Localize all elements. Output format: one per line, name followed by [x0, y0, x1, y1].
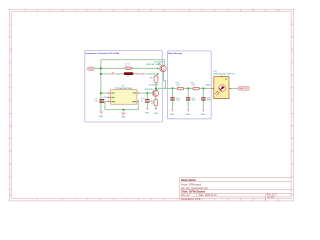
- D10 left pin: [211, 87, 213, 89]
- junction on rail at B: [100, 67, 102, 69]
- wire B end pin square: [157, 68, 158, 69]
- svg-text:BPW34S_SMD_GMP / PD: BPW34S_SMD_GMP / PD: [214, 73, 236, 75]
- wire: U5 out to Q2 base: [140, 92, 152, 94]
- frame row ticks left/right: [9, 37, 293, 189]
- value text overlay on rail C (left): [109, 73, 123, 75]
- svg-text:WHIT1088_C1k: WHIT1088_C1k: [145, 89, 157, 91]
- capacitor C8: [141, 98, 150, 103]
- wire: C11 to gnd: [187, 100, 189, 109]
- wire: rail C square to resistor: [155, 75, 157, 90]
- svg-text:D3: D3: [136, 74, 138, 76]
- svg-text:4.7u: 4.7u: [94, 101, 98, 103]
- resistor dark body on rail C: [124, 72, 134, 75]
- svg-text:100n: 100n: [176, 100, 180, 102]
- svg-text:KiCad E.D.A. 8.0.8: KiCad E.D.A. 8.0.8: [181, 198, 201, 201]
- transistor Q2: [152, 90, 158, 96]
- capacitor C10: [170, 97, 180, 101]
- svg-text:G: G: [10, 177, 12, 179]
- svg-text:Bias Filtering: Bias Filtering: [168, 52, 182, 55]
- svg-text:GND: GND: [145, 113, 150, 115]
- group box: Bias Filtering: [168, 51, 212, 119]
- svg-text:1k: 1k: [118, 74, 120, 76]
- junction under U5: [123, 109, 125, 111]
- capacitor C12: [201, 97, 211, 101]
- svg-text:Ralph Muehl: Ralph Muehl: [181, 179, 196, 182]
- hierarchical label arrow: [158, 63, 160, 65]
- junction at Q2 collector: [155, 87, 157, 89]
- wire: cap1 drop: [172, 88, 174, 97]
- frame column numbers: [24, 10, 281, 201]
- svg-text:+3V3: +3V3: [102, 97, 106, 99]
- svg-text:C5 1u: C5 1u: [125, 64, 130, 66]
- svg-text:Title: GFM Board: Title: GFM Board: [181, 190, 205, 194]
- capacitor C5 (oval): [125, 67, 132, 70]
- svg-text:+1.2k: +1.2k: [191, 85, 196, 87]
- svg-text:2: 2: [108, 100, 109, 102]
- ground arrow under U5: [121, 113, 126, 116]
- resistor R10: [177, 87, 183, 90]
- svg-text:100n: 100n: [207, 100, 211, 102]
- svg-text:GND: GND: [201, 114, 206, 116]
- svg-text:D4: D4: [141, 74, 143, 76]
- group box: Temperature Correction: [85, 50, 163, 122]
- svg-text:1%: 1%: [151, 103, 154, 105]
- ground under C11: [187, 110, 190, 112]
- global label PT1k: [87, 67, 94, 70]
- svg-text:GND: GND: [186, 114, 191, 116]
- wire: C12 to gnd: [202, 100, 204, 109]
- wire: cap3 drop: [202, 88, 204, 97]
- svg-text:+2mA: +2mA: [205, 84, 211, 87]
- wire: cap2 drop: [187, 88, 189, 97]
- photodiode D10 box: [214, 77, 229, 99]
- wire: U5 ground U-loop: [105, 102, 138, 110]
- resistor R5 vertical (upper): [154, 76, 158, 83]
- wire: rail C: [101, 73, 157, 75]
- svg-text:Date: 2025-01-30: Date: 2025-01-30: [199, 194, 218, 197]
- svg-text:G: G: [292, 177, 294, 179]
- D10 right pin: [229, 87, 232, 89]
- wire: D10 to BIAS label: [232, 87, 238, 89]
- frame column ticks top/bottom: [37, 9, 266, 201]
- svg-text:3: 3: [108, 96, 109, 98]
- frame row letters: [10, 23, 294, 197]
- wire: R6 to ground: [155, 106, 157, 108]
- capacitor C11: [186, 97, 196, 101]
- svg-text:WHIT1088_C1k: WHIT1088_C1k: [146, 64, 158, 66]
- junction rail/pin1: [100, 92, 102, 94]
- wire: Q2 collector to bias filter: [157, 88, 211, 91]
- svg-text:10k: 10k: [150, 77, 153, 79]
- wire: Q2 emitter down to R6: [155, 97, 157, 100]
- svg-text:GND: GND: [154, 113, 159, 115]
- photodiode symbol: [215, 85, 226, 96]
- wire C end pin square: [157, 74, 158, 75]
- ground under C8: [146, 108, 149, 110]
- svg-text:Temperature Correction (10C 4x: Temperature Correction (10C 4x1/4): [85, 52, 119, 55]
- wire: C10 to gnd: [172, 100, 174, 109]
- ground under R6: [154, 108, 158, 111]
- svg-text:1k: 1k: [127, 76, 129, 78]
- D10 top pin: [220, 75, 222, 76]
- svg-text:Q2 BC857B: Q2 BC857B: [149, 84, 159, 86]
- ground under rail: [100, 112, 103, 115]
- svg-text:Id: 1/1: Id: 1/1: [267, 197, 274, 199]
- svg-text:GND: GND: [99, 116, 104, 118]
- junction cap2: [187, 87, 189, 89]
- svg-text:GND: GND: [121, 116, 126, 118]
- junction at C8: [146, 92, 148, 94]
- ground under C12: [202, 110, 205, 112]
- wire: left vertical rail: [100, 60, 102, 112]
- svg-text:Sheet: /GFM board/: Sheet: /GFM board/: [181, 183, 202, 186]
- svg-text:Size: A4: Size: A4: [181, 194, 190, 197]
- svg-text:R4: R4: [112, 73, 114, 75]
- svg-text:+1.2k: +1.2k: [176, 85, 181, 87]
- sheet frame outer border: [9, 9, 293, 201]
- wire: rail B: [94, 67, 157, 69]
- value text overlay on rail C (right): [135, 73, 148, 75]
- svg-text:1: 1: [108, 92, 109, 94]
- junction on rail at C: [100, 73, 102, 75]
- svg-text:1u: 1u: [125, 65, 127, 67]
- wire: rail to U5 pin1: [101, 92, 107, 94]
- sheet frame inner border: [12, 12, 292, 199]
- junction cap3: [202, 87, 204, 89]
- wire: C8 to ground: [146, 103, 148, 108]
- U5 pin numbers: [108, 92, 139, 103]
- resistor R6 vertical (lower): [154, 99, 158, 106]
- U5 pin names: [112, 92, 137, 102]
- svg-text:PT1k: PT1k: [88, 68, 92, 70]
- svg-text:5: 5: [138, 92, 139, 94]
- resistor R11: [193, 87, 199, 90]
- capacitor C4 on rail: [94, 99, 104, 104]
- svg-text:BIAS_OUT: BIAS_OUT: [239, 87, 247, 90]
- svg-text:TPS7A2033PDBVR: TPS7A2033PDBVR: [115, 87, 133, 90]
- title block lines: [180, 177, 292, 201]
- D10 green flag: [225, 78, 227, 80]
- wire: top rail A: [101, 60, 164, 65]
- regulator U5 body: [111, 90, 137, 105]
- wire: Q1 emitter down: [164, 72, 166, 89]
- wire: C8 top lead: [146, 93, 148, 99]
- transistor Q1: [160, 65, 167, 72]
- ground under C10: [171, 110, 174, 112]
- global label BIAS_OUT: [238, 87, 250, 90]
- junction cap1: [172, 87, 174, 89]
- svg-text:GND: GND: [170, 114, 175, 116]
- U5 left pin stubs: [107, 93, 140, 102]
- svg-text:1u: 1u: [141, 100, 143, 102]
- svg-text:100n: 100n: [192, 100, 196, 102]
